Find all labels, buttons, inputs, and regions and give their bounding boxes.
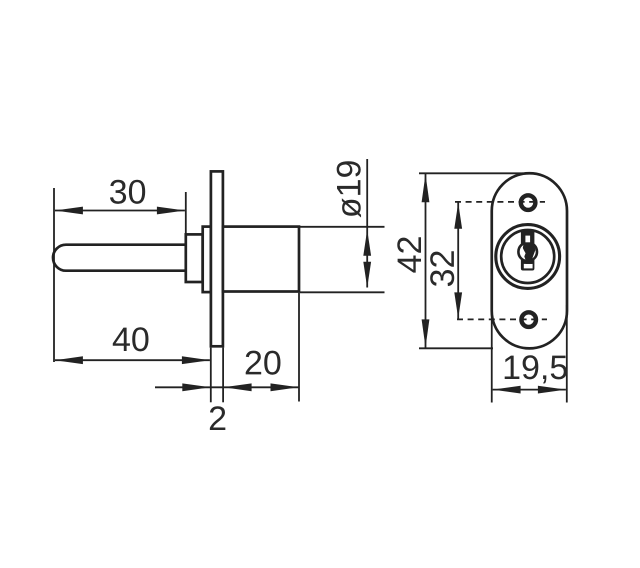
oval face plate (front view): [492, 173, 567, 348]
keyway plug ring: [518, 243, 537, 262]
extension line plate left: [210, 348, 212, 403]
extension line oval right (for 19,5): [566, 305, 568, 403]
label 40: [113, 327, 149, 351]
label dia 19 (rotated): [337, 161, 361, 217]
extension line body bottom (for dia 19): [300, 291, 385, 293]
center dashed line bottom hole: [457, 318, 547, 320]
key profile blob: [523, 242, 536, 264]
extension line oval top (for 42): [419, 172, 523, 174]
extension line oval left (for 19,5): [491, 305, 493, 403]
screw hole bottom: [521, 312, 536, 327]
label 2: [210, 406, 225, 430]
extension line plate right: [222, 348, 224, 403]
keyway top window: [525, 236, 530, 243]
label 20: [246, 351, 281, 375]
label 30: [110, 180, 145, 204]
label 32 (rotated): [430, 251, 454, 286]
keyway bottom window: [524, 264, 533, 269]
dimension line 32: [454, 202, 462, 319]
cylinder inner ring: [501, 230, 554, 283]
extension line body top (for dia 19): [300, 226, 385, 228]
dimension line 2 and 20: [155, 383, 299, 391]
collar: [203, 227, 211, 293]
washer collar: [186, 234, 203, 282]
extension line shaft end: [185, 192, 187, 236]
label 19,5: [505, 355, 567, 383]
extension line shaft tip: [53, 188, 55, 362]
extension line body right: [298, 293, 300, 402]
keyway slot: [521, 230, 535, 271]
dimension line dia 19: [363, 159, 371, 288]
shaft (side view rod with rounded tip): [53, 245, 186, 271]
dimension line 40: [55, 356, 210, 364]
dimension line 42: [422, 173, 430, 348]
label 42 (rotated): [397, 237, 421, 272]
dimension line 19,5: [493, 386, 566, 394]
lock body: [223, 227, 299, 292]
center dashed line top hole: [455, 201, 545, 203]
dimension line 30: [55, 207, 185, 215]
extension line oval bottom (for 42): [419, 347, 493, 349]
cylinder outer circle: [496, 225, 560, 289]
flange plate (side view): [211, 171, 223, 346]
screw hole top: [521, 195, 536, 210]
